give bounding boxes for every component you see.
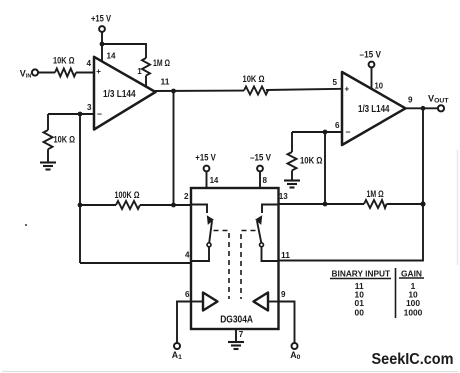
svg-text:+15 V: +15 V	[195, 153, 216, 163]
wire: 1M bottom to pin 1 on U1	[145, 76, 147, 88]
svg-text:–15 V: –15 V	[360, 49, 382, 59]
svg-text:11: 11	[161, 77, 171, 86]
svg-text:+: +	[96, 67, 101, 76]
node: VOUT / 1M junction	[420, 201, 425, 206]
driver buffer A0 (right triangle)	[268, 301, 279, 303]
svg-text:1M Ω: 1M Ω	[153, 58, 170, 68]
resistor R1 10K	[55, 69, 76, 77]
wire: U2 output to VOUT	[405, 107, 438, 109]
node: output node 11	[171, 89, 176, 94]
resistor 10K (U2 pin 6 to ground)	[288, 152, 297, 170]
svg-text:7: 7	[239, 330, 244, 339]
svg-text:+15 V: +15 V	[91, 14, 111, 24]
switch S1 (left, pins 2-4)	[191, 205, 212, 262]
node: 1M / pin13 junction	[323, 202, 328, 207]
table: BINARY INPUT / GAIN	[332, 268, 423, 317]
power terminal +15V (op-amp U1 pin 14)	[99, 26, 105, 32]
wire: +15V down to pin 14	[101, 32, 103, 62]
wire: junction to resistor 1M top	[102, 44, 146, 58]
svg-text:GAIN: GAIN	[401, 268, 422, 278]
svg-text:11: 11	[281, 251, 291, 260]
wire: U1 output (pin 11) to U2 pin 5	[155, 90, 244, 92]
svg-text:4: 4	[87, 59, 92, 68]
wire: node 11 down to 100K junction	[173, 91, 175, 205]
svg-text:6: 6	[335, 121, 340, 130]
svg-text:9: 9	[281, 290, 286, 299]
svg-text:10K Ω: 10K Ω	[243, 74, 265, 84]
ground (below DG304A)	[228, 342, 244, 349]
svg-text:6: 6	[185, 290, 190, 299]
wire: +15V to chip pin 14	[206, 172, 208, 189]
svg-text:1/3 L144: 1/3 L144	[103, 89, 136, 100]
svg-text:DG304A: DG304A	[220, 314, 253, 325]
resistor 10K (between stages)	[244, 87, 268, 95]
node: VOUT node	[421, 106, 426, 111]
wire: pin 9 to terminal A0	[279, 302, 295, 344]
svg-text:100K Ω: 100K Ω	[115, 190, 140, 200]
wire: feedback vertical from pin3 node down to 100K	[79, 114, 81, 263]
wire: DG304A pin 13 to 1M	[279, 203, 365, 205]
svg-text:SeekIC.com: SeekIC.com	[372, 351, 454, 368]
wire: 100K to DG304A pin 2	[140, 204, 191, 206]
ground (right of U2)	[284, 181, 300, 188]
resistor 10K to ground	[44, 130, 53, 149]
svg-text:1000: 1000	[404, 307, 423, 317]
wire: to resistor 100K	[80, 204, 116, 206]
power terminal +15V (DG304A pin 14)	[204, 166, 210, 172]
speck (scan artifact)	[25, 224, 27, 226]
svg-text:–: –	[97, 109, 102, 119]
switch S2 (right, pins 13-11)	[257, 205, 279, 262]
dashed control line (left driver to S1)	[214, 231, 230, 300]
svg-text:4: 4	[185, 251, 190, 260]
driver buffer A1 (left triangle)	[191, 301, 203, 303]
node: 100K junction	[78, 203, 83, 208]
svg-text:10: 10	[375, 81, 384, 90]
svg-text:8: 8	[263, 176, 268, 185]
svg-text:–: –	[346, 127, 351, 137]
svg-text:5: 5	[333, 78, 338, 87]
node: pin 6 junction	[323, 130, 328, 135]
svg-text:10K Ω: 10K Ω	[53, 56, 75, 66]
wire: VOUT vertical down and across to DG304A pin 11	[279, 108, 424, 260]
svg-text:1M Ω: 1M Ω	[367, 189, 384, 199]
wire: -15V to pin 10	[371, 68, 373, 90]
svg-text:14: 14	[210, 176, 219, 185]
wire: pin 6 to terminal A1	[177, 302, 191, 344]
wire: down to resistor 10K (input divider)	[47, 114, 49, 130]
ground (left)	[40, 163, 56, 170]
node: pin3 / feedback junction	[78, 112, 83, 117]
faint scan edge bottom	[2, 371, 458, 373]
wire: U2 pin 6 left	[292, 131, 342, 133]
svg-text:10K Ω: 10K Ω	[300, 156, 323, 166]
node: +15V / 1M junction	[100, 42, 105, 47]
svg-text:2: 2	[184, 192, 189, 201]
svg-text:9: 9	[408, 96, 413, 105]
resistor 1M (U2 feedback)	[364, 200, 387, 208]
wire: resistor to ground	[47, 149, 49, 162]
wire: pin 4 of DG304A to feedback bottom	[80, 262, 191, 264]
terminal VOUT	[438, 105, 444, 111]
wire: pin6 node down to 1M feedback	[324, 132, 326, 204]
svg-text:BINARY INPUT: BINARY INPUT	[332, 268, 391, 278]
terminal VIN	[32, 69, 38, 75]
power terminal -15V (DG304A pin 8)	[257, 166, 263, 172]
dashed control line (right driver to S2)	[241, 231, 256, 300]
IC U3 DG304A body	[191, 188, 279, 329]
svg-text:3: 3	[87, 103, 92, 112]
faint scan edge right	[457, 150, 459, 265]
svg-text:1/3 L144: 1/3 L144	[358, 104, 390, 115]
svg-text:–15 V: –15 V	[250, 153, 271, 163]
svg-text:00: 00	[355, 307, 365, 317]
wire: 1M to VOUT vertical	[387, 203, 424, 205]
resistor 1M (U1 feedback, pin 1)	[142, 58, 150, 76]
wire: down to 10K ground resistor	[291, 132, 293, 152]
op-amp U2 1/3 L144	[342, 72, 406, 145]
wire: U1 pin 3 to left network	[48, 113, 94, 115]
svg-text:13: 13	[279, 192, 288, 201]
op-amp U1 1/3 L144	[94, 57, 156, 130]
wire: -15V to chip pin 8	[259, 172, 261, 189]
svg-text:+: +	[345, 85, 350, 94]
svg-text:1: 1	[137, 67, 142, 76]
node: junction with U1 output vertical	[171, 203, 176, 208]
svg-text:10K Ω: 10K Ω	[54, 135, 76, 145]
wire: resistor to ground	[291, 170, 293, 180]
terminal A1	[174, 343, 180, 349]
wire: VIN to R1 to op-amp U1 pin 4	[38, 72, 94, 74]
terminal A0	[292, 343, 298, 349]
svg-text:14: 14	[107, 52, 116, 61]
wire: DG304A pin 7 to ground	[235, 329, 237, 342]
resistor 100K	[116, 201, 140, 209]
power terminal -15V (U2 pin 10)	[369, 62, 375, 68]
